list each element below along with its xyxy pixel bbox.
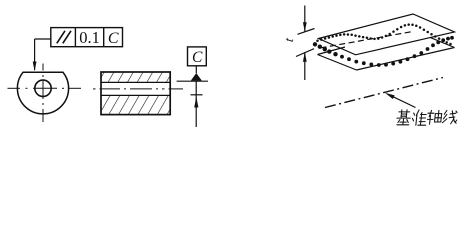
- svg-text:t: t: [281, 37, 296, 43]
- svg-text:0.1: 0.1: [79, 28, 100, 47]
- svg-text:C: C: [192, 49, 203, 66]
- svg-text:C: C: [108, 30, 119, 47]
